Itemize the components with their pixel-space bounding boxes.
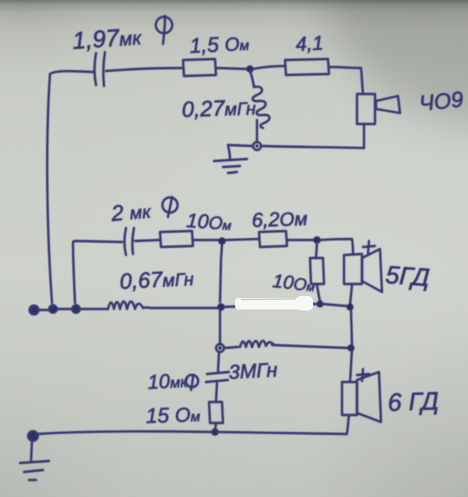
wire: node I down to speaker B3 top bbox=[350, 351, 352, 381]
input terminal T4 bbox=[28, 431, 38, 441]
wire: bottom return right bbox=[217, 432, 347, 434]
speaker B2 (midrange 5ГД) bbox=[344, 249, 382, 292]
wire: C2 to resistor R3 bbox=[135, 240, 160, 241]
wire: top-left horizontal to capacitor C1 bbox=[50, 71, 93, 74]
label: 6 ГД speaker bbox=[387, 387, 439, 417]
wire: left main vertical bbox=[47, 74, 52, 303]
node J junction dot bbox=[211, 428, 219, 436]
ground (top section) bbox=[214, 159, 247, 173]
wire: bottom return up to speaker B3 bbox=[347, 416, 349, 433]
wire: T2 to T3 bbox=[57, 308, 72, 310]
white-out correction patch bbox=[235, 296, 313, 311]
label: 5ГД speaker bbox=[385, 261, 431, 292]
capacitor C1 1,97мкФ bbox=[95, 52, 106, 86]
label: 10мкФ bbox=[147, 370, 189, 394]
speaker B1 (tweeter 409) bbox=[357, 94, 400, 124]
wire: L3 to node I bbox=[272, 345, 348, 348]
svg-text:ЧО9: ЧО9 bbox=[418, 86, 465, 115]
handwritten labels bbox=[72, 23, 465, 428]
wire: R2 to speaker B1 top corner bbox=[329, 67, 363, 93]
capacitor C2 2мкФ bbox=[125, 228, 135, 255]
wire: node E down to resistor R5 bbox=[316, 243, 317, 258]
input terminal T2 bbox=[49, 305, 57, 313]
label: 409 speaker bbox=[418, 86, 465, 115]
wire: bottom return left bbox=[38, 431, 213, 434]
svg-text:10мк: 10мк bbox=[147, 370, 189, 394]
inductor L2 0,67мГн (zigzag) bbox=[108, 302, 150, 310]
label: 1,5 Ом bbox=[189, 32, 250, 58]
wire: R6 to node J bbox=[215, 424, 216, 430]
wire: branch corner to capacitor C2 bbox=[77, 241, 122, 242]
label glyph Ф of 10мкФ bbox=[186, 375, 198, 390]
inductor L3 3МГн (zigzag) bbox=[240, 341, 274, 347]
wire: B2 bottom down bbox=[350, 285, 352, 305]
speaker B3 (woofer 6ГД) bbox=[342, 372, 381, 422]
label glyph Ф of 2мкФ bbox=[162, 197, 177, 217]
wire: C3 to resistor R6 bbox=[216, 383, 217, 401]
resistor R2 4,1 bbox=[285, 59, 329, 75]
label: 3МГн bbox=[228, 359, 278, 384]
input terminal T1 bbox=[30, 306, 39, 315]
wire: node A down to inductor L1 bbox=[250, 71, 254, 87]
wire: node F to speaker B2 return bbox=[323, 304, 346, 306]
node G open junction bbox=[216, 344, 224, 352]
resistor R4 6,2Ом bbox=[259, 231, 287, 247]
wire: middle branch left vertical bbox=[73, 241, 77, 303]
wire: node G down to capacitor C3 bbox=[218, 352, 219, 371]
inductor L1 0,27мГн (vertical coil) bbox=[253, 87, 270, 128]
wire: R3 to node D bbox=[193, 239, 218, 241]
svg-text:5ГД: 5ГД bbox=[385, 261, 431, 292]
node F junction dot bbox=[316, 300, 323, 307]
wire: node B to ground stem bbox=[228, 145, 252, 159]
wire: T4 ground stem bbox=[31, 441, 32, 461]
ground (bottom) bbox=[20, 461, 49, 480]
capacitor C3 10мкФ (horizontal plates) bbox=[206, 372, 229, 382]
input terminal T3 bbox=[72, 305, 80, 313]
wire: L1 to node B bbox=[256, 120, 258, 141]
label: 4,1 bbox=[295, 33, 324, 56]
wire: R5 to node F bbox=[317, 285, 320, 301]
plus mark at B3 bbox=[357, 369, 369, 381]
resistor R5 10Ом (vertical) bbox=[310, 258, 324, 284]
svg-text:0,67мГн: 0,67мГн bbox=[119, 265, 194, 294]
node H junction dot bbox=[346, 303, 353, 310]
label: 10Ом (R5) bbox=[271, 271, 316, 296]
wire: node C to node F (partly whited out) bbox=[221, 304, 316, 307]
wire: T1 to T2 bbox=[38, 309, 49, 311]
wire: L2 to node C bbox=[150, 307, 217, 309]
label: 0,27 мГн bbox=[181, 94, 256, 122]
wire: node A to resistor R2 bbox=[253, 66, 285, 69]
wire: speaker B1 bottom down bbox=[363, 124, 365, 148]
label: 2 мк Ф bbox=[109, 198, 153, 227]
label: 10Ом (R3) bbox=[186, 210, 233, 235]
wire: R1 to node A bbox=[217, 68, 247, 69]
label: 6,2 Ом (R4) bbox=[251, 208, 307, 232]
resistor R3 10Ом bbox=[160, 231, 193, 247]
label: 0,67 мГн bbox=[119, 265, 194, 294]
svg-text:0,27мГн: 0,27мГн bbox=[181, 94, 256, 122]
wire: node E to speaker B2 top bbox=[321, 239, 353, 254]
node B open junction bbox=[253, 142, 261, 150]
wire: node D to resistor R4 bbox=[226, 239, 259, 240]
wire: R4 to node E bbox=[287, 239, 313, 241]
node D junction dot bbox=[218, 237, 226, 245]
wire: node G to inductor L3 bbox=[224, 347, 238, 348]
svg-text:4,1: 4,1 bbox=[295, 33, 324, 56]
label: 15 Ом bbox=[145, 403, 201, 428]
svg-text:6,2Ом: 6,2Ом bbox=[251, 208, 307, 232]
node I junction dot bbox=[347, 344, 354, 351]
resistor R1 1,5 Ом bbox=[183, 59, 216, 76]
wire: bottom return of top section bbox=[262, 146, 364, 148]
wire: node H down to row 2 bbox=[351, 310, 352, 345]
plus mark at B2 bbox=[363, 241, 375, 253]
wire: C1 to resistor R1 bbox=[106, 68, 183, 71]
wire: node C down to node G bbox=[220, 244, 222, 344]
svg-text:6 ГД: 6 ГД bbox=[387, 387, 439, 417]
label: 1,97мк Ф bbox=[72, 23, 143, 55]
svg-text:3МГн: 3МГн bbox=[228, 359, 278, 384]
node E junction dot bbox=[313, 236, 321, 244]
node A junction dot bbox=[246, 65, 253, 72]
resistor R6 15Ом (vertical) bbox=[209, 402, 223, 423]
node C junction dot bbox=[217, 303, 225, 311]
label glyph Ф of 1,97мкФ bbox=[156, 16, 172, 44]
wire: T3 to inductor L2 bbox=[80, 308, 108, 310]
